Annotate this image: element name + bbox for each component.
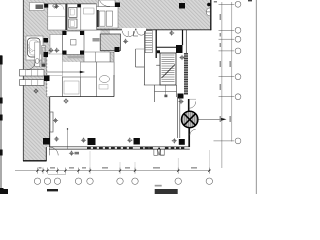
corridor R9 <box>47 54 63 97</box>
door sym 2 <box>137 31 146 35</box>
black column A3 top band <box>179 3 185 9</box>
counter with basins 1 <box>20 70 45 77</box>
outline top band bottom edge <box>84 29 211 31</box>
right page border <box>255 0 257 194</box>
wall above ladder <box>182 30 184 45</box>
room R1 top-left <box>48 4 68 30</box>
bottom dim ticks <box>38 168 210 174</box>
stair lobby bold wall <box>155 30 157 59</box>
hatch left strip <box>23 62 50 147</box>
room R8 <box>63 31 85 55</box>
door gap 1 in top band <box>122 28 135 31</box>
double door bottom <box>154 148 164 156</box>
bottom-left black block <box>0 189 8 194</box>
black column B1 <box>44 38 49 43</box>
pilaster on left wall <box>50 112 53 132</box>
extension line <box>67 128 69 149</box>
stair small mark <box>157 50 160 53</box>
room R5c corner vestibule <box>99 0 116 7</box>
stair1 rails <box>143 30 145 86</box>
R8 corner columns <box>63 31 67 35</box>
door diamond in R1 <box>53 4 58 9</box>
left edge black marks <box>0 56 3 65</box>
white area below band left of shaft <box>84 30 101 52</box>
pantry room <box>81 62 115 97</box>
right dim labels (rotated text marks) <box>220 14 231 122</box>
outline left edge of building <box>22 0 24 161</box>
right dim line 2 <box>231 2 233 142</box>
hatch shaft block <box>100 34 120 51</box>
bottom wall double line <box>49 146 190 148</box>
round column <box>182 111 198 127</box>
outline foot right edge <box>45 147 47 161</box>
room below stair <box>155 85 177 102</box>
room R45 shower room <box>97 7 119 29</box>
room box left of stair lobby <box>135 49 137 67</box>
fixtures in B <box>70 9 74 15</box>
black column A1 <box>44 4 48 8</box>
black column A2 <box>77 4 81 7</box>
room B outer <box>67 4 96 30</box>
black column A4 <box>115 3 120 8</box>
bottom dim second line <box>48 174 66 176</box>
hatch upper-left block <box>23 0 110 62</box>
wall stub below column <box>188 128 190 147</box>
mullion dashes <box>87 147 184 149</box>
big column C1 <box>176 45 183 53</box>
hatch shaft wall strip <box>110 52 114 77</box>
wall end left door recess <box>160 149 164 155</box>
NE door: semicircle swing <box>206 8 210 16</box>
counter with basins 2 <box>20 80 45 86</box>
outline top band right edge <box>210 0 212 30</box>
corridor wall <box>177 97 179 138</box>
SW entrance door arc <box>50 147 58 155</box>
top right tick <box>248 0 252 1</box>
black column shaft <box>115 47 120 52</box>
stair2 diagonal break <box>162 65 176 79</box>
stair2 direction line <box>164 70 166 95</box>
door arc R1 <box>59 4 65 10</box>
hatch top band <box>23 0 211 30</box>
black column B2 <box>44 76 50 82</box>
door arc bottom <box>190 129 196 135</box>
stair landing line <box>156 64 160 66</box>
stair1 treads <box>145 31 152 53</box>
right dim ticks <box>214 4 235 141</box>
outline foot bottom edge <box>23 160 47 162</box>
NE door: black dot <box>207 3 211 7</box>
bottom wall columns <box>43 138 50 145</box>
white fixture slot in strip <box>30 3 45 11</box>
left page-edge line <box>0 55 2 194</box>
black column B1b <box>44 52 49 57</box>
small dim dash near NE corner <box>214 1 217 2</box>
stall B2 <box>69 19 77 28</box>
leader arrow left <box>47 71 82 73</box>
outline strip right edge <box>49 62 51 147</box>
stall B1 <box>69 7 77 17</box>
door gap 2 in top band <box>137 28 147 31</box>
door sym 1 <box>122 31 135 37</box>
bottom dash mark <box>47 189 58 191</box>
hall top wall y=96.6 <box>50 96 114 98</box>
room R10 <box>63 77 81 97</box>
door arc lavatory <box>27 62 35 70</box>
column C2 <box>178 94 184 99</box>
room R11 <box>84 52 110 62</box>
wall stub above column <box>188 99 190 111</box>
title text <box>155 185 162 187</box>
bottom dim labels <box>39 167 198 168</box>
stair2 treads <box>162 55 175 81</box>
bottom dim line <box>15 170 211 172</box>
duct slot <box>42 46 46 67</box>
grid symbol cross-circles <box>33 4 184 156</box>
bottom grid bubbles <box>34 178 212 184</box>
room R7 bathroom <box>26 36 43 60</box>
ladder curtain wall <box>184 53 188 95</box>
right grid bubbles <box>235 1 241 143</box>
WC stall column <box>35 42 40 67</box>
hatch left foot <box>23 147 46 161</box>
stair lobby door jamb <box>134 31 139 36</box>
door arc top <box>189 102 196 109</box>
right dim line 1 <box>221 2 223 168</box>
hall left wall of stair block <box>144 84 160 86</box>
room left of R8 <box>50 35 63 61</box>
leader arrow right <box>199 118 224 120</box>
stair2 box <box>160 53 176 85</box>
extension lines to bottom dim <box>90 150 209 170</box>
small mark below stair <box>164 95 167 98</box>
bottom dim slashes <box>36 170 210 172</box>
top wall over rooms <box>44 3 97 5</box>
wall x=114 <box>113 75 115 97</box>
tiny label glyph cluster upper-left <box>36 5 44 10</box>
